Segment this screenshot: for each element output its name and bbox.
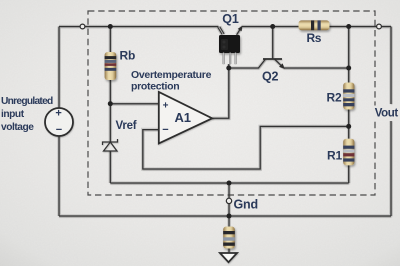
svg-text:Vref: Vref bbox=[116, 120, 137, 132]
wire: Q1 emitter diagonal bbox=[237, 27, 242, 35]
svg-text:R2: R2 bbox=[327, 91, 342, 105]
wire: top rail left (Vin to Q1 collector) bbox=[59, 26, 219, 28]
node: rail/Rb junction bbox=[108, 24, 113, 29]
svg-text:−: − bbox=[162, 124, 168, 136]
transistor Q1 legs bbox=[223, 53, 237, 65]
wire: Gnd tap from ground rail down bbox=[228, 183, 230, 227]
node: rail/Rs-R2 junction bbox=[346, 24, 351, 29]
svg-text:Q2: Q2 bbox=[262, 70, 279, 84]
terminal: ground (open circle) bbox=[226, 198, 231, 203]
node: ground rail / Gnd tap bbox=[227, 181, 232, 186]
wire: Q1 collector diagonal (double stroke) bbox=[218, 27, 222, 34]
svg-text:input: input bbox=[1, 109, 25, 120]
resistor Rb body bbox=[105, 52, 117, 80]
wire: - input feedback run bbox=[143, 126, 349, 169]
gnd resistor bands bbox=[223, 231, 235, 246]
svg-text:A1: A1 bbox=[175, 110, 191, 125]
wire: + input of A1 bbox=[110, 103, 159, 105]
node: Q2 emitter / R2 top bbox=[346, 66, 351, 71]
wire: Q2 base vertical from rail bbox=[272, 27, 274, 60]
svg-text:−: − bbox=[56, 124, 62, 136]
Q2 emitter arrowhead bbox=[279, 63, 285, 69]
resistor R1 body bbox=[343, 139, 354, 166]
wire: left edge up to source - bbox=[58, 136, 60, 217]
gnd resistor body bbox=[223, 227, 235, 249]
terminal: input (open circle) bbox=[80, 24, 85, 29]
resistor R2 bands bbox=[343, 89, 354, 106]
node: Rb / zener / + input bbox=[108, 101, 113, 106]
label: Vout bbox=[373, 106, 399, 120]
resistor Rs body bbox=[299, 20, 330, 30]
wire: top rail right (Q1 emitter to output corner) bbox=[242, 26, 392, 28]
wire: R2 column from rail node down through divider to ground rail bbox=[348, 27, 350, 184]
wire: Q2 emitter to R2 column bbox=[284, 67, 349, 69]
wire: right edge down (Vout side), gap behind Vout label bbox=[390, 27, 392, 105]
wire: bottom external rail bbox=[59, 215, 391, 217]
wire: A1 output to Q1 base node bbox=[212, 64, 229, 118]
node: R2/R1 divider tap bbox=[346, 124, 351, 129]
Q1 emitter arrowhead bbox=[238, 26, 243, 32]
wire: internal ground rail bbox=[110, 182, 348, 184]
node: bottom rail / Gnd junction bbox=[227, 214, 232, 219]
wire: Q2 emitter diagonal bbox=[275, 59, 284, 68]
dashed regulator boundary bbox=[88, 11, 375, 195]
resistor R2 body bbox=[343, 83, 354, 110]
svg-text:Rs: Rs bbox=[307, 31, 322, 45]
svg-text:Vout: Vout bbox=[375, 108, 399, 120]
wire: Q1 base node to Q2 collector bbox=[229, 59, 266, 68]
svg-text:Rb: Rb bbox=[120, 49, 136, 63]
wire: Rb bottom to + input node to zener bbox=[109, 80, 111, 142]
node: Q1 base / A1 output bbox=[226, 66, 231, 71]
zener diode Vref symbol bbox=[103, 139, 118, 151]
svg-text:R1: R1 bbox=[327, 149, 342, 163]
wire: left column from rail down to source + bbox=[58, 27, 60, 109]
wire: zener anode down to ground rail bbox=[109, 151, 111, 183]
resistor Rb bands bbox=[105, 56, 117, 71]
svg-text:protection: protection bbox=[131, 81, 179, 93]
op-amp A1 triangle bbox=[159, 92, 212, 144]
terminal: output (open circle) bbox=[377, 24, 382, 29]
wire: gnd resistor to ground symbol bbox=[228, 249, 230, 254]
svg-text:+: + bbox=[163, 100, 169, 111]
node: rail/Q2 base junction bbox=[270, 24, 275, 29]
svg-text:+: + bbox=[55, 108, 61, 120]
svg-text:Unregulated: Unregulated bbox=[1, 96, 53, 107]
ground symbol bbox=[220, 253, 237, 262]
voltage source V1 circle bbox=[45, 108, 73, 136]
transistor Q1 package body bbox=[219, 35, 240, 53]
wire: Q2 base bar bbox=[263, 58, 282, 60]
svg-text:voltage: voltage bbox=[1, 122, 34, 133]
resistor R1 bands bbox=[343, 146, 354, 162]
wire: Rb top stub from rail bbox=[109, 27, 111, 53]
wire halo (soft-focus duplicate of all wires) bbox=[59, 27, 391, 254]
svg-text:Q1: Q1 bbox=[222, 12, 239, 26]
svg-text:Overtemperature: Overtemperature bbox=[131, 69, 212, 81]
resistor Rs bands bbox=[311, 20, 321, 30]
svg-text:Gnd: Gnd bbox=[234, 197, 258, 211]
